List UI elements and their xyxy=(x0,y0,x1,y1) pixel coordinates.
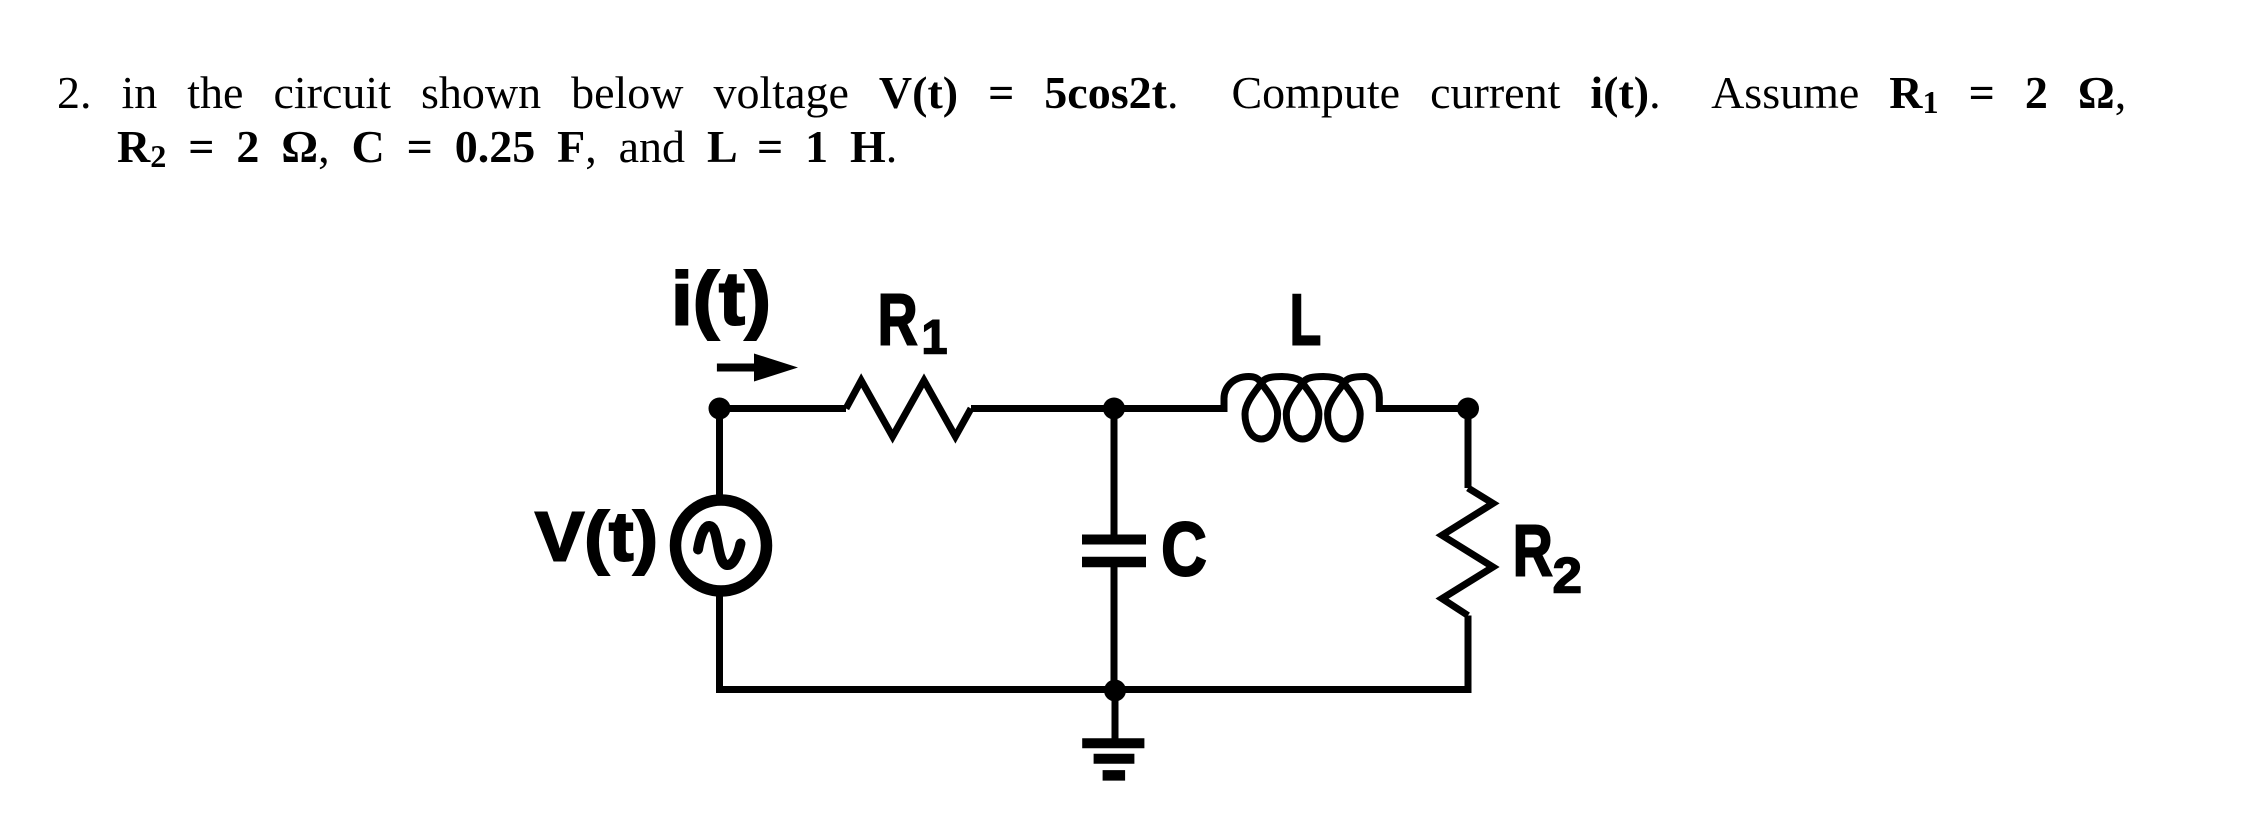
current arrow i(t) xyxy=(717,364,758,372)
wire: source top lead xyxy=(716,405,723,501)
voltage source V(t) circle xyxy=(676,500,767,591)
ground bar 2 xyxy=(1094,754,1135,764)
wire: top-left segment from source node to R1 xyxy=(720,405,847,412)
capacitor C top plate xyxy=(1082,535,1146,545)
wire: R1 to inductor xyxy=(971,405,1220,412)
resistor R1 xyxy=(846,381,971,437)
wire: R2 bottom lead xyxy=(1465,616,1472,694)
node: ground junction xyxy=(1104,680,1126,702)
svg-text:R: R xyxy=(1513,512,1553,592)
problem text line 2 xyxy=(117,120,897,173)
capacitor C bottom plate xyxy=(1082,557,1146,568)
wire: source bottom lead xyxy=(716,591,723,693)
sine symbol inside source xyxy=(698,526,741,565)
svg-text:V(t): V(t) xyxy=(535,498,658,576)
wire: capacitor top lead xyxy=(1111,409,1118,535)
node: inductor-R2 junction xyxy=(1457,398,1479,420)
ground bar 3 xyxy=(1103,770,1126,781)
svg-text:L: L xyxy=(1290,280,1322,360)
ground stub xyxy=(1112,690,1119,741)
wire: inductor to right node xyxy=(1377,405,1468,412)
inductor L coil xyxy=(1216,377,1384,440)
node: capacitor top junction xyxy=(1103,398,1125,420)
problem text line 1 xyxy=(57,66,2126,119)
svg-text:C: C xyxy=(1161,507,1207,592)
resistor R2 xyxy=(1442,488,1493,616)
svg-text:R: R xyxy=(878,281,918,361)
wire: capacitor bottom lead xyxy=(1111,567,1118,690)
node: source top junction xyxy=(709,398,731,420)
wire: bottom rail xyxy=(716,686,1472,693)
wire: R2 top lead xyxy=(1465,405,1472,488)
svg-text:1: 1 xyxy=(922,312,948,365)
svg-text:2: 2 xyxy=(1553,548,1583,604)
ground bar 1 xyxy=(1082,738,1144,748)
svg-text:i(t): i(t) xyxy=(671,257,771,341)
